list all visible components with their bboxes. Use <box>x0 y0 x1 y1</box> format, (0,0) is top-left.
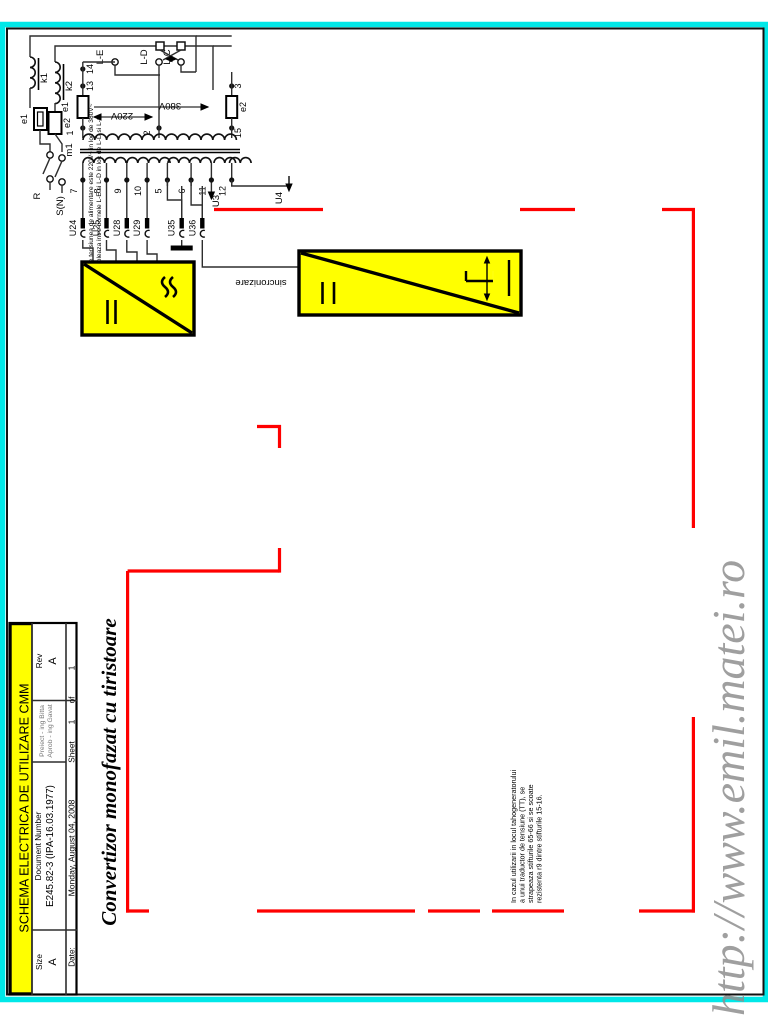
fuse e1 input <box>34 108 47 130</box>
svg-text:9: 9 <box>113 188 123 193</box>
svg-text:7: 7 <box>69 188 79 193</box>
svg-text:380V: 380V <box>158 100 181 111</box>
wire taps top <box>82 62 84 96</box>
block A symbol AC <box>162 277 168 297</box>
svg-text:Document Number: Document Number <box>34 811 43 880</box>
converter block B <box>299 251 521 315</box>
tap 3 <box>229 83 234 88</box>
tap 15 <box>229 125 234 130</box>
terminal L-D <box>156 59 162 65</box>
block A symbol DC <box>106 300 109 324</box>
inductor k1 <box>30 57 35 88</box>
svg-text:Sheet: Sheet <box>68 741 77 763</box>
svg-text:L-D: L-D <box>139 49 150 64</box>
red module boundary right vertical <box>692 208 695 528</box>
svg-text:13: 13 <box>85 81 95 91</box>
svg-text:8: 8 <box>93 188 103 193</box>
wire top right to tap3 <box>213 45 232 47</box>
switch S(N) <box>59 155 65 161</box>
switch R <box>47 152 53 158</box>
red module boundary inner step <box>128 569 280 572</box>
svg-text:e2: e2 <box>238 102 248 112</box>
svg-text:U35: U35 <box>167 220 177 237</box>
tap 2 <box>156 125 161 130</box>
terminal L-E <box>112 59 118 65</box>
svg-text:Preiect - ing Bitta: Preiect - ing Bitta <box>39 705 46 757</box>
inductor k2 <box>55 62 60 104</box>
wire pin5 jog to U35 <box>167 180 181 218</box>
svg-text:rezistenta r9 dintre stifturil: rezistenta r9 dintre stifturile 15-16. <box>535 794 544 903</box>
svg-text:m1: m1 <box>64 143 75 156</box>
svg-text:1: 1 <box>67 665 77 670</box>
svg-text:S(N): S(N) <box>55 196 66 216</box>
svg-text:U25: U25 <box>92 220 102 237</box>
wire top feed horizontal <box>30 36 196 64</box>
svg-text:k1: k1 <box>39 73 50 83</box>
svg-text:1: 1 <box>65 130 75 135</box>
svg-text:sincronizare: sincronizare <box>235 277 286 288</box>
svg-text:U28: U28 <box>112 220 122 237</box>
svg-text:e1: e1 <box>60 102 70 112</box>
wire k2 to fuse e2 <box>54 103 56 112</box>
selector cross wires <box>160 50 178 60</box>
svg-text:Monday, August 04, 2008: Monday, August 04, 2008 <box>67 799 77 896</box>
power supply block A <box>82 262 194 335</box>
svg-text:5: 5 <box>153 188 163 193</box>
ground below U35 <box>181 240 183 246</box>
svg-text:A: A <box>47 657 59 665</box>
svg-text:http://www.emil.matei.ro: http://www.emil.matei.ro <box>703 560 754 1016</box>
svg-text:A: A <box>47 958 59 966</box>
svg-text:R: R <box>32 192 43 199</box>
svg-text:Aprob - ing Gavat: Aprob - ing Gavat <box>47 704 54 757</box>
block B pulse symbol <box>466 280 493 282</box>
wire k1 to fuse e1 <box>29 88 31 108</box>
terminal L-C <box>178 59 184 65</box>
title block frame <box>10 623 77 995</box>
transformer m1 secondary windings <box>83 158 105 163</box>
transformer m1 primary winding <box>83 134 236 140</box>
svg-text:k2: k2 <box>64 81 75 91</box>
svg-text:Size: Size <box>35 954 44 970</box>
red module boundary polyline top <box>214 208 323 211</box>
tap 14 <box>80 66 85 71</box>
m1 secondary pins 7 8 9 10 5 6 11 12 <box>82 163 84 186</box>
red module boundary left vertical <box>126 571 129 913</box>
fuse e1 tap <box>78 96 89 118</box>
block B symbol DC <box>321 282 324 304</box>
title block yellow title band <box>11 625 32 994</box>
title block cell borders <box>31 623 33 995</box>
tap 1 <box>80 125 85 130</box>
arrow 220V <box>94 116 152 118</box>
sincronizare wire <box>202 240 299 267</box>
svg-text:SCHEMA ELECTRICA DE UTILIZARE: SCHEMA ELECTRICA DE UTILIZARE CMM <box>18 683 32 932</box>
svg-text:14: 14 <box>85 64 95 74</box>
arrow 380V <box>94 106 208 108</box>
red module boundary bottom <box>639 909 695 912</box>
svg-text:U36: U36 <box>187 220 197 237</box>
fuse row U24 U25 U28 U29 U35 U36 <box>82 186 84 218</box>
wires U24..U29 down to block A <box>83 240 93 262</box>
fuse e2 input <box>49 112 62 134</box>
wire L-D down to tap 2 <box>158 65 160 126</box>
arrow U3 down <box>210 186 212 196</box>
svg-text:e1: e1 <box>19 114 29 124</box>
wire pin6 jog <box>191 180 202 218</box>
svg-text:of: of <box>68 696 77 704</box>
transformer m1 core <box>80 149 240 151</box>
arrow U4 down <box>232 176 289 186</box>
svg-text:1: 1 <box>67 719 77 724</box>
svg-text:Rev: Rev <box>35 653 44 668</box>
wire e2 to switch S <box>55 134 62 152</box>
svg-text:220V: 220V <box>110 110 133 121</box>
selector squares above L-D L-C <box>156 42 164 50</box>
svg-text:E245.82-3 (IPA-16.03.1977): E245.82-3 (IPA-16.03.1977) <box>45 785 56 907</box>
svg-text:3: 3 <box>233 83 243 88</box>
svg-text:U29: U29 <box>132 220 142 237</box>
fuse e2 tap <box>226 96 237 118</box>
svg-text:10: 10 <box>133 186 143 196</box>
svg-text:e2: e2 <box>62 118 72 128</box>
svg-text:U3: U3 <box>211 195 222 207</box>
svg-text:Date:: Date: <box>68 947 77 967</box>
svg-text:U4: U4 <box>274 192 285 204</box>
svg-text:12: 12 <box>218 186 228 196</box>
svg-text:Convertizor monofazat cu tiris: Convertizor monofazat cu tiristoare <box>97 618 121 925</box>
svg-text:U24: U24 <box>68 220 78 237</box>
wire e1 to switch R <box>40 130 50 152</box>
tap 13 <box>80 83 85 88</box>
wire k2 top feed <box>55 46 213 90</box>
wire L-C down <box>181 65 196 72</box>
